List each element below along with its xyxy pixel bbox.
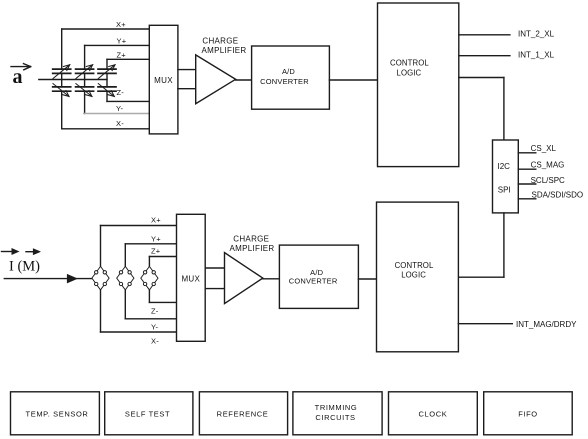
svg-text:X+: X+ xyxy=(116,20,126,29)
wire charge amplifier to A/D converter (accelerometer) xyxy=(236,79,252,81)
magnetic field vector arrows xyxy=(2,249,40,254)
control logic (accelerometer) xyxy=(378,3,459,167)
wire SCL/SPC xyxy=(518,183,536,185)
op-amp: charge amplifier (accelerometer) xyxy=(196,55,236,104)
A/D converter (accelerometer) xyxy=(252,46,330,109)
svg-text:FIFO: FIFO xyxy=(518,409,537,418)
svg-text:CONVERTER: CONVERTER xyxy=(260,77,309,86)
svg-text:AMPLIFIER: AMPLIFIER xyxy=(230,244,275,253)
self test block xyxy=(105,392,193,435)
wire X+ rail (accelerometer) xyxy=(62,28,150,30)
svg-text:CLOCK: CLOCK xyxy=(418,409,447,418)
svg-text:X-: X- xyxy=(116,119,124,128)
svg-text:CHARGE: CHARGE xyxy=(202,37,238,46)
svg-text:SPI: SPI xyxy=(498,185,511,194)
wire CS_MAG xyxy=(518,168,536,170)
wire Y+ rail (accelerometer) xyxy=(85,44,150,46)
svg-text:X-: X- xyxy=(151,336,159,345)
svg-text:X+: X+ xyxy=(151,215,161,224)
wire Y- rail (magnetometer) xyxy=(125,290,176,319)
wire X- rail (accelerometer) xyxy=(62,128,150,130)
control logic (magnetometer) xyxy=(377,202,459,352)
acceleration vector arrow xyxy=(11,64,31,70)
svg-text:AMPLIFIER: AMPLIFIER xyxy=(202,46,247,55)
label CHARGE AMPLIFIER (magnetometer) xyxy=(230,235,275,253)
svg-text:CONTROL: CONTROL xyxy=(395,261,434,270)
clock block xyxy=(389,392,478,435)
svg-text:MUX: MUX xyxy=(181,274,200,283)
wire control logic to I2C/SPI block xyxy=(459,78,504,141)
wire Z+ rail (magnetometer) xyxy=(149,257,176,267)
temperature sensor block xyxy=(11,392,100,435)
svg-text:A/D: A/D xyxy=(282,67,295,76)
wire I2C/SPI block to magnetometer control logic xyxy=(458,213,504,277)
svg-text:CS_MAG: CS_MAG xyxy=(531,161,565,170)
svg-text:TEMP. SENSOR: TEMP. SENSOR xyxy=(26,409,89,418)
wire MUX to charge amplifier lower (accelerometer) xyxy=(178,88,196,90)
label CHARGE AMPLIFIER (accelerometer) xyxy=(202,37,247,55)
variable capacitor pair: Y accelerometer element xyxy=(76,45,94,113)
svg-text:Z-: Z- xyxy=(151,307,159,316)
wire INT_1_XL xyxy=(459,55,510,57)
svg-text:INT_2_XL: INT_2_XL xyxy=(518,30,555,39)
wire INT_2_XL xyxy=(459,34,510,36)
wire: magnetometer drive current input xyxy=(4,275,92,282)
wire Y- rail (accelerometer, grey) xyxy=(84,113,149,115)
svg-text:Y+: Y+ xyxy=(151,234,161,243)
svg-text:Y-: Y- xyxy=(151,323,159,332)
svg-text:CHARGE: CHARGE xyxy=(233,235,269,244)
svg-text:LOGIC: LOGIC xyxy=(401,270,426,279)
svg-text:SDA/SDI/SDO: SDA/SDI/SDO xyxy=(532,191,584,200)
wire Y+ rail (magnetometer) xyxy=(125,244,176,266)
wire MUX to charge amplifier lower (magnetometer) xyxy=(205,288,224,290)
svg-text:TRIMMING: TRIMMING xyxy=(315,403,358,412)
svg-text:a: a xyxy=(13,66,23,88)
I2C / SPI interface block U-IF xyxy=(493,140,519,213)
magnetoresistive bridge: Z magnetometer element xyxy=(141,266,158,290)
wire MUX to charge amplifier upper (accelerometer) xyxy=(178,69,196,71)
svg-text:LOGIC: LOGIC xyxy=(397,68,422,77)
fifo block xyxy=(484,392,573,435)
svg-text:CONTROL: CONTROL xyxy=(390,59,429,68)
wire SDA/SDI/SDO xyxy=(518,198,536,200)
mux (magnetometer MUX) xyxy=(177,214,206,341)
svg-text:Z-: Z- xyxy=(117,88,125,97)
svg-text:CONVERTER: CONVERTER xyxy=(289,277,338,286)
magnetoresistive bridge: Y magnetometer element xyxy=(117,266,134,290)
svg-text:INT_1_XL: INT_1_XL xyxy=(518,50,555,59)
svg-text:I (M): I (M) xyxy=(9,259,40,275)
wire X- rail (magnetometer) xyxy=(101,290,177,332)
wire MUX to charge amplifier upper (magnetometer) xyxy=(205,267,224,269)
wire A/D converter to control logic (accelerometer) xyxy=(329,79,377,81)
svg-text:REFERENCE: REFERENCE xyxy=(217,409,269,418)
magnetoresistive bridge: X magnetometer element xyxy=(92,266,109,290)
svg-text:MUX: MUX xyxy=(154,76,173,85)
variable capacitor pair: Z accelerometer element xyxy=(98,59,116,101)
svg-text:INT_MAG/DRDY: INT_MAG/DRDY xyxy=(516,320,577,329)
wire Z- rail (magnetometer) xyxy=(149,290,176,302)
reference block xyxy=(199,392,287,435)
wire: accelerometer common node xyxy=(39,79,107,81)
wire charge amplifier to A/D converter (magnetometer) xyxy=(263,278,280,280)
wire Z- rail (accelerometer) xyxy=(107,100,149,102)
svg-text:CIRCUITS: CIRCUITS xyxy=(315,413,355,422)
svg-text:I2C: I2C xyxy=(498,162,511,171)
wire INT_MAG/DRDY xyxy=(458,323,512,325)
wire CS_XL xyxy=(518,152,536,154)
trimming circuits block xyxy=(293,392,382,435)
svg-text:Z+: Z+ xyxy=(117,51,127,60)
wire A/D converter to control logic (magnetometer) xyxy=(358,278,376,280)
svg-text:SCL/SPC: SCL/SPC xyxy=(531,176,565,185)
svg-text:CS_XL: CS_XL xyxy=(531,144,557,153)
op-amp: charge amplifier (magnetometer) xyxy=(225,253,263,304)
wire Z+ rail (accelerometer) xyxy=(107,58,149,60)
svg-text:Y+: Y+ xyxy=(117,36,127,45)
svg-text:Z+: Z+ xyxy=(151,246,161,255)
mux (accelerometer MUX) xyxy=(149,25,178,134)
A/D converter (magnetometer) xyxy=(279,245,358,308)
svg-text:SELF TEST: SELF TEST xyxy=(125,409,170,418)
wire X+ rail (magnetometer) xyxy=(101,226,177,267)
variable capacitor pair: X accelerometer element xyxy=(53,29,71,129)
svg-text:Y-: Y- xyxy=(116,104,124,113)
